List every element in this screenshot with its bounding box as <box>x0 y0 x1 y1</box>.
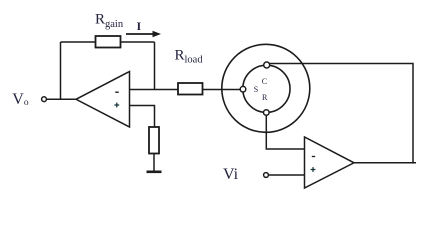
terminal S pin <box>240 86 246 92</box>
terminal C pin <box>264 62 270 68</box>
op-amp U2 <box>305 137 355 188</box>
wire main node to Rload to sensor <box>130 89 241 91</box>
op-amp U1 <box>76 72 130 128</box>
wire feedback left vertical <box>60 42 62 99</box>
svg-text:R: R <box>262 93 268 102</box>
sensor inner circle <box>243 65 290 112</box>
ground <box>147 171 162 174</box>
terminal Vi <box>264 173 269 178</box>
terminal Vo <box>42 97 47 102</box>
svg-text:S: S <box>254 85 258 94</box>
resistor Rload <box>178 83 203 95</box>
wire feedback top horizontal <box>61 41 155 43</box>
wire Vi to U2 plus <box>268 174 304 176</box>
sensor outer circle <box>222 44 310 132</box>
wire output U1 to Vo terminal <box>47 98 78 100</box>
wire sensor R terminal to U2 minus <box>266 115 304 149</box>
wire resistor to ground <box>153 154 155 172</box>
svg-text:C: C <box>262 77 267 86</box>
resistor R1 vertical <box>149 127 159 154</box>
terminal R pin <box>264 110 270 116</box>
op-amp U2 plus sign <box>311 167 316 172</box>
op-amp U1 plus sign <box>114 103 119 108</box>
op-amp U1 minus sign <box>115 91 118 93</box>
wire sensor C terminal to right feedback <box>270 64 413 164</box>
op-amp U2 minus sign <box>312 156 315 158</box>
wire output U2 <box>354 162 416 164</box>
resistor Rgain <box>96 36 121 48</box>
svg-text:Vi: Vi <box>223 166 239 183</box>
wire feedback right vertical <box>154 42 156 90</box>
current arrow I <box>126 31 161 37</box>
svg-text:I: I <box>137 19 142 33</box>
wire U1 plus input branch <box>130 106 155 128</box>
